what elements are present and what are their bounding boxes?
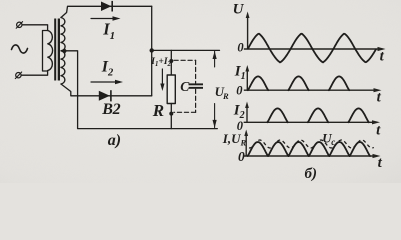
svg-text:0: 0 <box>238 149 245 164</box>
svg-text:В2: В2 <box>101 101 120 118</box>
svg-text:б): б) <box>305 166 317 182</box>
svg-text:а): а) <box>108 132 121 149</box>
svg-text:0: 0 <box>236 83 243 97</box>
svg-text:U: U <box>233 2 245 18</box>
svg-text:0: 0 <box>237 41 244 55</box>
svg-text:C: C <box>180 79 190 94</box>
svg-text:R: R <box>152 101 164 120</box>
